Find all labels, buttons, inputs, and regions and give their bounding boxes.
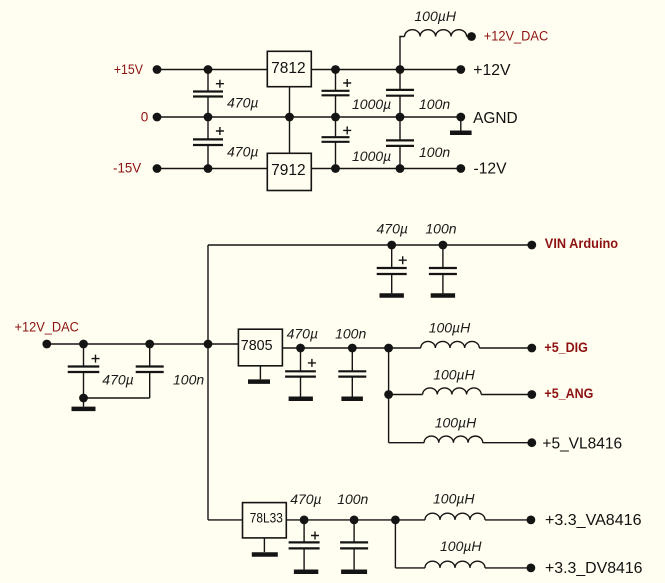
ground 78L33 out 100n	[341, 569, 367, 574]
wire 78L33 output row	[286, 519, 425, 521]
svg-text:1000µ: 1000µ	[352, 148, 391, 164]
wire main trunk vertical	[207, 245, 209, 520]
wire +15V row left	[157, 69, 267, 71]
node junction +5_ANG branch	[384, 390, 393, 399]
value label 470u 7805 out	[287, 326, 318, 342]
svg-text:+3.3_VA8416: +3.3_VA8416	[545, 512, 642, 529]
inductor 100uH +5_VL8416	[424, 436, 532, 443]
wire 5V branch vertical	[388, 348, 390, 443]
node junction row3 100n column	[396, 164, 405, 173]
svg-text:78L33: 78L33	[250, 510, 283, 525]
value label 100n DAC input	[173, 371, 204, 387]
wire +12V row right of 7812	[311, 69, 461, 71]
svg-text:VIN Arduino: VIN Arduino	[545, 236, 618, 251]
wire +12V_DAC row to 7805	[47, 343, 239, 345]
capacitor 470u upper-left electrolytic	[193, 70, 224, 118]
capacitor 470u DAC input electrolytic	[68, 344, 100, 398]
wire link 7812 to 7912	[289, 87, 291, 154]
svg-text:100µH: 100µH	[440, 538, 482, 554]
svg-text:100µH: 100µH	[429, 320, 471, 336]
terminal dot +12V_DAC top	[467, 32, 476, 41]
net label -15V	[113, 161, 141, 176]
value label 100uH +5_ANG	[433, 367, 475, 383]
net label VIN Arduino	[545, 236, 618, 251]
ground DAC input	[72, 398, 96, 409]
ground 7805	[248, 366, 270, 382]
terminal dot +15V	[153, 65, 162, 74]
svg-text:100µH: 100µH	[414, 8, 456, 24]
svg-text:AGND: AGND	[473, 110, 518, 127]
node junction row1 1000u column	[331, 65, 340, 74]
svg-text:+12V_DAC: +12V_DAC	[484, 29, 549, 44]
value label 100n 78L33 out	[337, 491, 368, 507]
svg-text:100µH: 100µH	[433, 367, 475, 383]
wire trunk to 78L33	[208, 519, 243, 521]
ground VIN 470u	[380, 293, 404, 298]
capacitor 470u 7805 out electrolytic	[285, 348, 316, 397]
net label +3.3_VA8416	[545, 512, 642, 529]
value label 470u upper-left	[227, 95, 258, 111]
capacitor 1000u lower electrolytic	[322, 117, 352, 169]
node junction 7805 out 100n	[348, 344, 357, 353]
regulator 78L33	[243, 503, 287, 538]
svg-text:100n: 100n	[419, 96, 450, 112]
value label 100uH top	[414, 8, 456, 24]
value label 100n 7805 out	[335, 326, 366, 342]
value label 470u VIN	[377, 221, 408, 237]
value label 100uH +5_VL8416	[435, 415, 477, 431]
node junction row1 100n column	[396, 65, 405, 74]
wire +5_ANG row lead	[389, 394, 423, 396]
capacitor 100n 7805 out ceramic	[338, 348, 366, 397]
capacitor 100n 78L33 out ceramic	[340, 520, 368, 570]
wire 3.3V branch vertical	[394, 520, 396, 568]
ground 7805 out 470u	[289, 397, 313, 402]
terminal dot +12V	[456, 65, 465, 74]
svg-text:470µ: 470µ	[377, 221, 408, 237]
value label 470u DAC input	[102, 371, 133, 387]
regulator 7805	[238, 329, 282, 366]
capacitor 470u lower-left electrolytic	[193, 117, 224, 169]
node junction 7805 out branch	[384, 344, 393, 353]
svg-text:-12V: -12V	[474, 160, 508, 177]
svg-text:+5_DIG: +5_DIG	[544, 340, 588, 355]
wire cap bottoms DAC input	[84, 397, 150, 399]
ground 78L33 out 470u	[294, 569, 318, 574]
capacitor 470u 78L33 out electrolytic	[289, 520, 320, 570]
node junction 78L33 out 470u	[300, 516, 309, 525]
value label 100n VIN	[425, 221, 456, 237]
node junction DAC row 100n	[145, 340, 154, 349]
svg-text:+15V: +15V	[114, 62, 143, 77]
svg-text:1000µ: 1000µ	[352, 96, 391, 112]
capacitor 1000u upper electrolytic	[322, 70, 352, 118]
inductor 100uH +5_DIG	[421, 341, 532, 348]
ground 78L33	[252, 538, 278, 555]
svg-text:470µ: 470µ	[287, 326, 318, 342]
node junction DAC ground	[79, 394, 88, 403]
svg-text:+12V_DAC: +12V_DAC	[15, 319, 80, 334]
node junction row2 cap column	[204, 113, 213, 122]
terminal dot +3.3_DV8416	[527, 564, 536, 573]
svg-text:+3.3_DV8416: +3.3_DV8416	[545, 560, 643, 577]
svg-text:7805: 7805	[241, 338, 273, 354]
net label AGND	[473, 110, 518, 127]
node junction row2 100n column	[396, 113, 405, 122]
wire 7805 output row	[282, 347, 420, 349]
svg-text:7812: 7812	[271, 60, 305, 77]
net label +5_VL8416	[542, 435, 622, 452]
node junction DAC row trunk	[204, 340, 213, 349]
svg-text:100µH: 100µH	[435, 415, 477, 431]
terminal dot -15V	[153, 164, 162, 173]
terminal dot -12V	[456, 164, 465, 173]
net label +12V	[473, 62, 511, 79]
value label 470u lower-left	[227, 144, 258, 160]
node junction 7805 out 470u	[296, 344, 305, 353]
terminal dot +3.3_VA8416	[527, 516, 536, 525]
net label -12V	[474, 160, 508, 177]
terminal dot +5_DIG	[527, 344, 536, 353]
capacitor 100n DAC input ceramic	[136, 344, 164, 398]
capacitor 100n upper ceramic	[386, 70, 414, 118]
terminal dot +12V_DAC mid	[42, 340, 51, 349]
net label +5_ANG	[544, 386, 593, 401]
svg-text:+12V: +12V	[473, 62, 511, 79]
ground 7805 out 100n	[341, 397, 363, 402]
terminal dot VIN Arduino	[527, 241, 536, 250]
node junction 78L33 out branch	[391, 516, 400, 525]
net label +5_DIG	[544, 340, 588, 355]
net label +12V_DAC mid	[15, 319, 80, 334]
svg-text:100µH: 100µH	[433, 490, 475, 506]
node junction DAC row 470u	[79, 340, 88, 349]
node junction row2 1000u column	[331, 113, 340, 122]
net label +15V	[114, 62, 143, 77]
value label 100uH +3.3_VA8416	[433, 490, 475, 506]
wire +5_VL8416 row lead	[389, 442, 425, 444]
regulator 7812	[267, 51, 311, 86]
terminal dot +5_VL8416	[527, 438, 536, 447]
net label 0	[141, 110, 149, 125]
inductor 100uH +5_ANG	[423, 388, 532, 395]
node junction row3 cap column	[204, 164, 213, 173]
svg-text:+5_ANG: +5_ANG	[544, 386, 593, 401]
svg-text:100n: 100n	[173, 371, 204, 387]
net label +12V_DAC top	[484, 29, 549, 44]
value label 1000u upper	[352, 96, 391, 112]
value label 1000u lower	[352, 148, 391, 164]
value label 100uH +3.3_DV8416	[440, 538, 482, 554]
svg-text:+5_VL8416: +5_VL8416	[542, 435, 622, 452]
node junction 78L33 out 100n	[350, 516, 359, 525]
svg-text:100n: 100n	[337, 491, 368, 507]
value label 100n lower	[419, 144, 450, 160]
wire 0/AGND row	[157, 116, 461, 118]
terminal dot +5_ANG	[527, 390, 536, 399]
capacitor 470u VIN electrolytic	[377, 245, 407, 293]
capacitor 100n VIN ceramic	[429, 245, 457, 293]
node junction VIN 470u	[387, 241, 396, 250]
net label +3.3_DV8416	[545, 560, 643, 577]
node junction row2 regulator link	[285, 113, 294, 122]
inductor 100uH +3.3_VA8416	[425, 513, 531, 520]
value label 100uH +5_DIG	[429, 320, 471, 336]
value label 100n upper	[419, 96, 450, 112]
node junction VIN 100n	[439, 241, 448, 250]
svg-text:470µ: 470µ	[227, 95, 258, 111]
regulator 7912	[267, 153, 311, 190]
ground VIN 100n	[431, 293, 455, 298]
svg-text:100n: 100n	[425, 221, 456, 237]
node junction row3 1000u column	[331, 164, 340, 173]
terminal dot 0	[153, 113, 162, 122]
value label 470u 78L33 out	[290, 491, 321, 507]
svg-text:-15V: -15V	[113, 161, 141, 176]
wire -12V row right of 7912	[311, 168, 461, 170]
svg-text:0: 0	[141, 110, 149, 125]
capacitor 100n lower ceramic	[386, 117, 414, 169]
svg-text:7912: 7912	[271, 162, 305, 179]
svg-text:100n: 100n	[335, 326, 366, 342]
wire +3.3_DV8416 row lead	[395, 567, 425, 569]
svg-text:470µ: 470µ	[290, 491, 321, 507]
ground AGND	[450, 117, 472, 133]
terminal dot AGND	[456, 113, 465, 122]
wire VIN Arduino row	[208, 244, 532, 246]
node junction top row1 cap column	[204, 65, 213, 74]
wire -15V row left	[157, 168, 267, 170]
inductor 100uH top output choke	[400, 30, 472, 70]
inductor 100uH +3.3_DV8416	[425, 561, 531, 568]
svg-text:470µ: 470µ	[227, 144, 258, 160]
svg-text:470µ: 470µ	[102, 371, 133, 387]
svg-text:100n: 100n	[419, 144, 450, 160]
